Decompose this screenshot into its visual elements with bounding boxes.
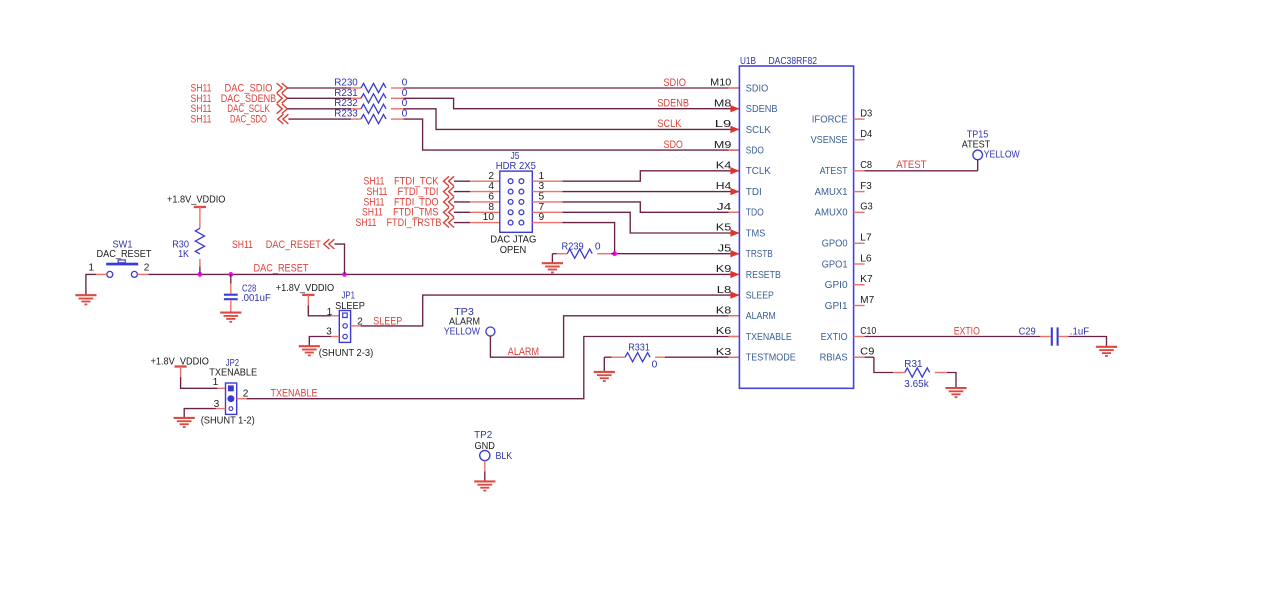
wire DAC_RESET net <box>138 273 149 275</box>
wire J5 pin6 <box>454 201 470 203</box>
ground JP2 <box>174 418 195 427</box>
wire J5 pin10 <box>454 222 470 224</box>
svg-text:SLEEP: SLEEP <box>746 291 774 302</box>
capacitor C28 <box>230 274 232 283</box>
resistor R230 <box>287 87 351 89</box>
svg-text:AMUX1: AMUX1 <box>815 187 848 198</box>
off-page connector DAC_SCLK <box>277 104 288 114</box>
capacitor C29 <box>1051 327 1053 345</box>
svg-text:R231: R231 <box>334 88 358 99</box>
svg-text:L7: L7 <box>860 233 872 244</box>
svg-text:GPI0: GPI0 <box>825 280 849 291</box>
svg-text:H4: H4 <box>716 181 732 192</box>
wire J5 pin8 <box>454 211 470 213</box>
svg-text:SDO: SDO <box>746 146 764 157</box>
svg-text:K6: K6 <box>716 326 732 337</box>
svg-text:K5: K5 <box>716 223 732 234</box>
wire TRSTB net <box>532 222 562 224</box>
svg-text:SDIO: SDIO <box>746 83 769 94</box>
svg-text:SH11: SH11 <box>356 217 377 229</box>
svg-text:K7: K7 <box>860 274 873 285</box>
wire TDO net <box>532 201 562 203</box>
wire JP1 pin3 to ground <box>331 336 339 338</box>
resistor R231 <box>287 97 351 99</box>
svg-text:SH11: SH11 <box>232 239 253 251</box>
svg-text:HDR 2X5: HDR 2X5 <box>496 161 536 172</box>
svg-text:(SHUNT 1-2): (SHUNT 1-2) <box>201 416 255 427</box>
svg-text:1K: 1K <box>178 249 189 260</box>
resistor R239 <box>552 253 556 255</box>
svg-text:R239: R239 <box>562 241 584 252</box>
svg-text:GPO1: GPO1 <box>822 259 848 270</box>
svg-text:ALARM: ALARM <box>508 346 539 358</box>
svg-text:GPO0: GPO0 <box>822 239 849 250</box>
svg-text:R331: R331 <box>628 342 650 353</box>
wire TXENABLE net <box>237 398 247 400</box>
svg-text:YELLOW: YELLOW <box>444 327 480 338</box>
svg-text:1: 1 <box>213 377 219 388</box>
svg-text:TMS: TMS <box>746 228 766 239</box>
svg-text:D4: D4 <box>860 129 872 140</box>
wire SW1 pin1 to ground <box>96 273 107 275</box>
wire R331 to ground <box>603 357 605 372</box>
svg-text:M9: M9 <box>714 140 732 151</box>
svg-text:0: 0 <box>402 77 408 88</box>
svg-text:TDI: TDI <box>746 187 762 198</box>
wire JP2 pin3 to ground <box>216 408 226 410</box>
svg-text:L8: L8 <box>717 285 732 296</box>
svg-text:TP15: TP15 <box>967 129 989 140</box>
wire R31 to ground <box>947 373 956 389</box>
ground R31 <box>945 388 966 397</box>
svg-text:AMUX0: AMUX0 <box>815 208 849 219</box>
svg-text:9: 9 <box>539 212 545 223</box>
ground JP1 <box>299 346 320 355</box>
svg-text:K4: K4 <box>716 161 732 172</box>
off-page connector DAC_SDENB <box>277 93 288 103</box>
svg-text:5: 5 <box>539 192 545 203</box>
wire SCLK net <box>404 109 740 130</box>
resistor R233 <box>288 118 351 120</box>
svg-text:TXENABLE: TXENABLE <box>746 332 792 343</box>
svg-text:RBIAS: RBIAS <box>820 353 849 364</box>
svg-text:TRSTB: TRSTB <box>746 249 773 260</box>
svg-text:M8: M8 <box>714 98 732 109</box>
svg-text:J5: J5 <box>718 243 732 254</box>
wire DAC_RESET drop <box>334 244 344 274</box>
svg-text:C9: C9 <box>860 347 875 358</box>
off-page connector FTDI_TRSTB <box>444 218 455 228</box>
svg-text:ATEST: ATEST <box>820 166 848 177</box>
resistor R31 <box>893 372 904 374</box>
svg-text:6: 6 <box>488 192 494 203</box>
svg-text:M10: M10 <box>710 78 732 89</box>
junction TRSTB-R239 <box>612 251 617 256</box>
svg-text:ALARM: ALARM <box>746 311 776 322</box>
U1B right pin stubs <box>854 118 865 120</box>
svg-text:J4: J4 <box>717 202 732 213</box>
junction C28-DAC_RESET <box>228 272 233 277</box>
svg-text:D3: D3 <box>860 109 872 120</box>
svg-text:0: 0 <box>402 88 408 99</box>
wire TP2 to ground <box>484 461 486 472</box>
ground C28 <box>220 313 241 322</box>
wire JP1 pin1 <box>308 306 331 316</box>
off-page connector DAC_RESET <box>324 239 335 249</box>
svg-text:10: 10 <box>483 212 495 223</box>
svg-text:(SHUNT 2-3): (SHUNT 2-3) <box>319 348 374 359</box>
wire RBIAS net <box>865 356 874 358</box>
pushbutton SW1 <box>106 263 138 266</box>
wire SDO net <box>404 119 740 150</box>
svg-text:C29: C29 <box>1019 326 1036 337</box>
svg-text:1: 1 <box>88 263 94 274</box>
svg-text:DAC_RESET: DAC_RESET <box>97 249 152 260</box>
svg-text:SCLK: SCLK <box>746 125 772 136</box>
svg-text:U1B: U1B <box>740 56 756 67</box>
svg-text:ATEST: ATEST <box>896 159 926 171</box>
junction R30-DAC_RESET <box>198 272 203 277</box>
resistor R30 <box>195 228 204 254</box>
svg-text:SCLK: SCLK <box>657 118 682 130</box>
svg-text:F3: F3 <box>860 181 872 192</box>
off-page connector FTDI_TCK <box>444 176 455 186</box>
svg-text:SLEEP: SLEEP <box>335 301 365 312</box>
off-page connector FTDI_TMS <box>444 207 455 217</box>
jumper JP1 body <box>339 311 350 343</box>
svg-text:G3: G3 <box>860 202 873 213</box>
svg-text:RESETB: RESETB <box>746 270 781 281</box>
ground R331 <box>594 372 615 381</box>
svg-text:0: 0 <box>402 109 408 120</box>
svg-text:C10: C10 <box>860 326 876 337</box>
wire SLEEP net <box>351 325 361 327</box>
ground TP2 <box>474 481 495 490</box>
svg-text:VSENSE: VSENSE <box>811 135 848 146</box>
svg-text:0: 0 <box>595 241 601 252</box>
svg-text:2: 2 <box>144 263 150 274</box>
svg-text:M7: M7 <box>860 295 874 306</box>
svg-text:K8: K8 <box>716 306 732 317</box>
svg-text:L9: L9 <box>715 119 732 130</box>
wire C29 to ground <box>1059 336 1069 338</box>
svg-text:BLK: BLK <box>496 451 513 462</box>
svg-text:SDENB: SDENB <box>657 97 689 109</box>
svg-text:SDO: SDO <box>663 139 683 151</box>
svg-text:DAC_RESET: DAC_RESET <box>266 239 321 251</box>
svg-text:EXTIO: EXTIO <box>821 332 848 343</box>
wire TMS net <box>532 211 562 213</box>
ground SW1 <box>75 295 96 304</box>
svg-text:FTDI_TRSTB: FTDI_TRSTB <box>387 217 442 229</box>
svg-text:+1.8V_VDDIO: +1.8V_VDDIO <box>276 283 334 294</box>
svg-text:0: 0 <box>652 360 658 371</box>
svg-text:TCLK: TCLK <box>746 166 772 177</box>
svg-text:2: 2 <box>488 171 494 182</box>
svg-text:DAC38RF82: DAC38RF82 <box>769 56 818 67</box>
ground C29 <box>1096 347 1117 356</box>
off-page connector FTDI_TDI <box>444 187 455 197</box>
wire TDI net <box>532 191 562 193</box>
wire TCLK net <box>532 180 562 182</box>
svg-text:DAC_SDO: DAC_SDO <box>230 114 267 126</box>
svg-text:R230: R230 <box>334 77 358 88</box>
wire R239 to ground <box>551 254 553 264</box>
off-page connector DAC_SDIO <box>277 83 288 93</box>
svg-text:IFORCE: IFORCE <box>812 115 848 126</box>
svg-text:SDENB: SDENB <box>746 104 778 115</box>
svg-text:TDO: TDO <box>746 208 764 219</box>
wire SDIO net <box>404 87 740 89</box>
wire SDENB net <box>404 98 740 108</box>
svg-text:DAC_RESET: DAC_RESET <box>254 263 309 275</box>
off-page connector FTDI_TDO <box>444 197 455 207</box>
svg-text:OPEN: OPEN <box>500 245 527 256</box>
svg-text:TP2: TP2 <box>474 430 492 441</box>
svg-text:SDIO: SDIO <box>663 77 686 89</box>
junction SH11 DAC_RESET drop <box>342 272 347 277</box>
svg-text:3.65k: 3.65k <box>904 379 929 390</box>
svg-text:SH11: SH11 <box>191 114 212 126</box>
off-page connector DAC_SDO <box>278 114 289 124</box>
svg-text:YELLOW: YELLOW <box>984 149 1020 160</box>
svg-text:1: 1 <box>327 307 333 318</box>
wire JP2 pin1 <box>181 377 218 388</box>
jumper JP2 body <box>226 383 237 414</box>
svg-text:K9: K9 <box>716 264 732 275</box>
svg-text:.1uF: .1uF <box>1070 326 1089 337</box>
svg-text:+1.8V_VDDIO: +1.8V_VDDIO <box>167 195 225 206</box>
op-amp U1B DAC38RF82 body <box>739 66 853 388</box>
svg-text:GPI1: GPI1 <box>825 301 848 312</box>
svg-text:1: 1 <box>539 171 545 182</box>
svg-text:DAC JTAG: DAC JTAG <box>490 234 536 245</box>
U1B input arrows <box>730 105 739 112</box>
svg-text:L6: L6 <box>860 253 872 264</box>
svg-text:EXTIO: EXTIO <box>954 325 981 337</box>
wire J5 pin4 <box>454 191 470 193</box>
connector J5 body <box>500 171 533 232</box>
svg-text:R233: R233 <box>334 109 358 120</box>
svg-text:R31: R31 <box>904 359 923 370</box>
ground R239 <box>542 263 563 272</box>
wire J5 pin2 <box>454 180 470 182</box>
wire ATEST net <box>865 170 978 172</box>
svg-text:TXENABLE: TXENABLE <box>271 388 318 400</box>
svg-text:TESTMODE: TESTMODE <box>746 353 796 364</box>
wire ALARM net <box>490 316 739 357</box>
svg-text:.001uF: .001uF <box>241 293 271 304</box>
wire EXTIO net <box>865 336 1041 338</box>
svg-text:SLEEP: SLEEP <box>373 315 402 327</box>
resistor R331 <box>604 356 611 358</box>
svg-text:K3: K3 <box>716 347 732 358</box>
svg-text:C8: C8 <box>860 160 872 171</box>
resistor R232 <box>287 108 351 110</box>
